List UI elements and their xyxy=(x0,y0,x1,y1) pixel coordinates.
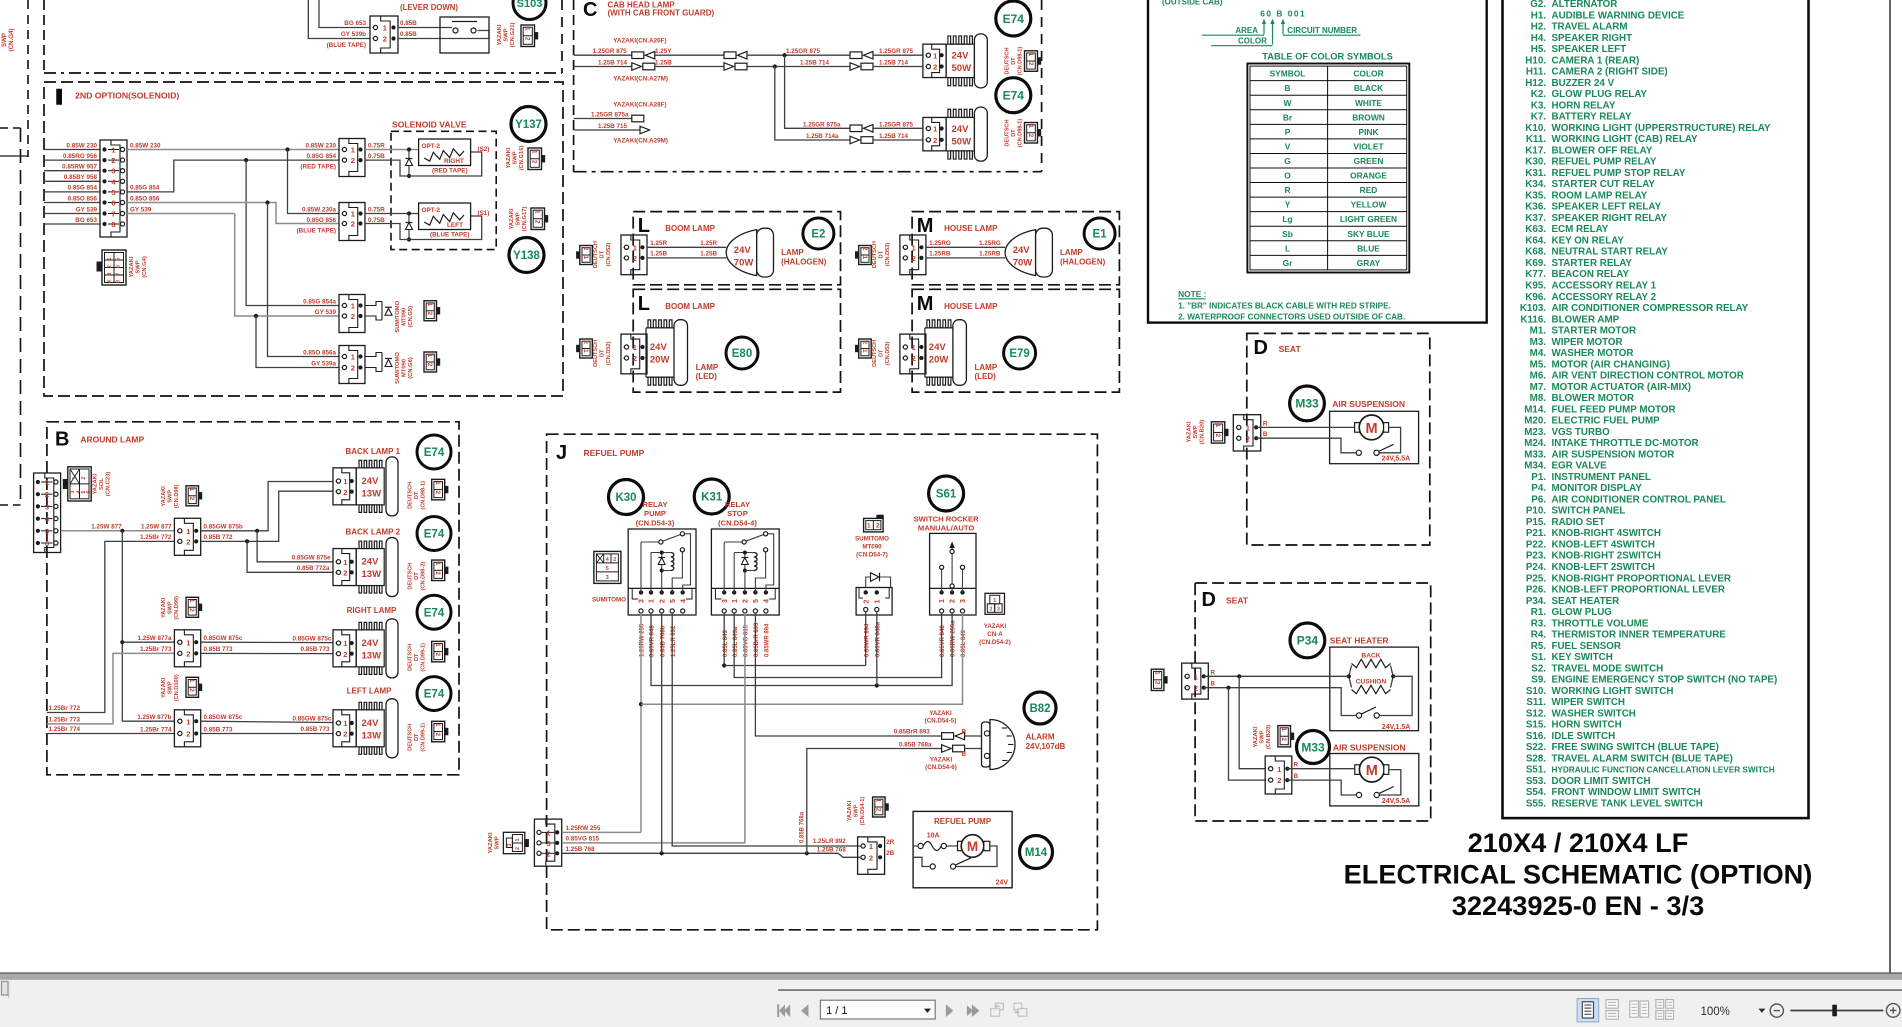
svg-text:1.25B: 1.25B xyxy=(650,251,667,258)
svg-text:BOOM LAMP: BOOM LAMP xyxy=(665,224,715,233)
svg-text:K30: K30 xyxy=(615,492,636,504)
svg-text:SWP: SWP xyxy=(516,212,522,225)
svg-text:2: 2 xyxy=(912,354,916,363)
svg-text:E74: E74 xyxy=(424,607,445,619)
svg-text:24V: 24V xyxy=(734,245,752,256)
svg-text:SWP: SWP xyxy=(495,836,501,849)
svg-text:K30.: K30. xyxy=(1525,157,1546,168)
svg-text:1: 1 xyxy=(861,256,868,260)
svg-text:S2.: S2. xyxy=(1531,663,1546,674)
svg-text:(CN.B20): (CN.B20) xyxy=(1266,725,1272,750)
svg-text:R3.: R3. xyxy=(1531,618,1547,629)
svg-text:P15.: P15. xyxy=(1526,517,1546,528)
svg-text:24V,5.5A: 24V,5.5A xyxy=(1382,456,1411,463)
svg-text:TRAVEL MODE SWITCH: TRAVEL MODE SWITCH xyxy=(1552,663,1664,674)
svg-text:2: 2 xyxy=(876,523,880,530)
svg-text:1.25B 714: 1.25B 714 xyxy=(879,133,909,140)
connector C3 YAZAKI SWP (CN.D100) xyxy=(174,710,200,747)
svg-text:1.25RG: 1.25RG xyxy=(979,240,1001,247)
connector icon DEUTSCH DT (CN.D53) xyxy=(859,246,872,265)
wire 0.85BrR 893 to alarm xyxy=(755,613,941,736)
connector X1 8-pin YAZAKI SWP (CN.G4) xyxy=(100,140,127,237)
svg-text:2: 2 xyxy=(343,730,347,739)
svg-text:LEFT: LEFT xyxy=(447,222,463,229)
wire bus 848 h3 xyxy=(651,613,952,686)
svg-text:B: B xyxy=(55,429,69,451)
lamp id E1 xyxy=(1084,218,1115,249)
svg-text:2: 2 xyxy=(186,538,190,547)
wire 0.85GW 875b C1 to back lamp1 xyxy=(201,482,333,531)
svg-text:DT: DT xyxy=(600,349,606,357)
svg-text:0.85B 773: 0.85B 773 xyxy=(301,646,331,653)
svg-text:13W: 13W xyxy=(362,730,382,741)
svg-text:Sb: Sb xyxy=(1282,229,1293,239)
connector icon YAZAKI SWP (CN.D100) xyxy=(186,677,199,697)
node area/color/circuit arrows xyxy=(1263,20,1265,35)
svg-text:2: 2 xyxy=(863,599,870,603)
svg-text:1: 1 xyxy=(1280,728,1287,732)
svg-text:1: 1 xyxy=(45,478,49,487)
svg-text:PUMP: PUMP xyxy=(644,509,666,518)
node toolbar background xyxy=(0,980,1902,1027)
lamp LED E80 xyxy=(646,327,674,329)
svg-text:0.85BrR 893: 0.85BrR 893 xyxy=(894,729,931,736)
svg-text:DT: DT xyxy=(878,250,884,258)
svg-text:DT: DT xyxy=(414,572,420,580)
svg-text:MOTOR ACTUATOR (AIR-MIX): MOTOR ACTUATOR (AIR-MIX) xyxy=(1552,382,1692,393)
svg-text:1.25RG: 1.25RG xyxy=(929,240,951,247)
svg-text:YAZAKI: YAZAKI xyxy=(506,147,512,168)
svg-text:CIRCUIT NUMBER: CIRCUIT NUMBER xyxy=(1287,26,1357,35)
svg-text:2: 2 xyxy=(351,364,355,373)
wire S1 pin2 loop xyxy=(365,216,482,240)
node section M box (E79) xyxy=(912,289,1119,392)
connector icon CN.G16 xyxy=(528,148,542,170)
wire stub pin5 0.85G 854 xyxy=(44,191,100,193)
lamp halogen E2 xyxy=(726,230,757,276)
wire branch G854a down to CN.G5 xyxy=(246,160,339,305)
svg-text:P24.: P24. xyxy=(1526,562,1546,573)
svg-text:(CN.G4): (CN.G4) xyxy=(8,28,15,51)
svg-text:2: 2 xyxy=(633,254,637,263)
node junction 877a xyxy=(120,640,124,644)
svg-text:SYMBOL: SYMBOL xyxy=(1270,69,1306,79)
svg-text:YAZAKI: YAZAKI xyxy=(161,597,167,618)
svg-text:BACK: BACK xyxy=(1361,652,1380,659)
svg-text:BOOM LAMP: BOOM LAMP xyxy=(665,302,715,311)
svg-text:THERMISTOR INNER TEMPERATURE: THERMISTOR INNER TEMPERATURE xyxy=(1552,630,1727,641)
switch id S61 xyxy=(929,476,964,511)
svg-text:MANUAL/AUTO: MANUAL/AUTO xyxy=(918,524,974,533)
svg-text:8: 8 xyxy=(111,220,115,229)
svg-text:J: J xyxy=(556,442,567,464)
svg-text:5: 5 xyxy=(606,566,609,572)
relay K31 xyxy=(711,529,779,615)
connector icon J-left xyxy=(503,832,524,853)
svg-text:32243925-0 EN - 3/3: 32243925-0 EN - 3/3 xyxy=(1452,890,1704,921)
motor box air suspension 1 xyxy=(1330,411,1419,463)
svg-text:2: 2 xyxy=(875,808,882,812)
svg-text:0.85G 854a: 0.85G 854a xyxy=(303,298,336,305)
svg-text:2: 2 xyxy=(343,488,347,497)
svg-text:2R: 2R xyxy=(886,839,895,846)
connector icon DEUTSCH DT (CN.D52) xyxy=(580,339,593,358)
connector icon YAZAKI SWP (CN.D99) xyxy=(186,597,199,617)
svg-text:2: 2 xyxy=(81,476,87,479)
svg-text:1: 1 xyxy=(111,146,115,155)
diode CN.G6 xyxy=(365,353,382,357)
svg-text:(CN.D54-4): (CN.D54-4) xyxy=(718,518,757,527)
svg-text:1: 1 xyxy=(1027,53,1034,57)
svg-text:M6.: M6. xyxy=(1530,371,1547,382)
svg-text:FUEL SENSOR: FUEL SENSOR xyxy=(1552,641,1622,652)
svg-text:SWITCH PANEL: SWITCH PANEL xyxy=(1552,506,1626,517)
svg-text:ELECTRICAL SCHEMATIC (OPTION): ELECTRICAL SCHEMATIC (OPTION) xyxy=(1344,859,1813,890)
svg-text:K64.: K64. xyxy=(1525,236,1546,247)
svg-text:3: 3 xyxy=(546,839,550,848)
svg-text:1: 1 xyxy=(1214,424,1221,428)
svg-text:P25.: P25. xyxy=(1526,573,1546,584)
wire S1 pin1 to OPT-2 LEFT xyxy=(365,213,419,215)
svg-text:LAMP: LAMP xyxy=(696,363,719,372)
svg-text:HYDRAULIC FUNCTION CANCELLATIO: HYDRAULIC FUNCTION CANCELLATION LEVER SW… xyxy=(1552,766,1775,775)
svg-text:0.85GW 875c: 0.85GW 875c xyxy=(293,635,332,642)
svg-text:YAZAKI: YAZAKI xyxy=(161,677,167,698)
solenoid OPT-2 LEFT (Y138 coil) xyxy=(419,203,471,230)
svg-text:B82: B82 xyxy=(1029,703,1050,715)
svg-text:M: M xyxy=(917,293,934,315)
svg-text:2: 2 xyxy=(426,363,433,367)
svg-text:S15.: S15. xyxy=(1526,720,1546,731)
node junction B714 xyxy=(773,64,777,68)
svg-text:(RED TAPE): (RED TAPE) xyxy=(300,164,336,171)
svg-text:RESERVE TANK LEVEL SWITCH: RESERVE TANK LEVEL SWITCH xyxy=(1552,799,1703,810)
svg-text:(HALOGEN): (HALOGEN) xyxy=(781,257,827,266)
svg-text:2: 2 xyxy=(434,653,441,657)
relay K30 xyxy=(628,529,696,615)
lamp id E74 xyxy=(417,517,451,551)
svg-text:24V: 24V xyxy=(929,342,947,353)
svg-text:YAZAKI: YAZAKI xyxy=(930,757,953,764)
svg-text:GY 539: GY 539 xyxy=(315,309,337,316)
wire S2 pin1 to OPT-2 RIGHT xyxy=(365,149,419,151)
wire 1.25GR 875 upper xyxy=(574,54,632,56)
svg-text:50W: 50W xyxy=(952,63,972,74)
wire 1.25Br 772 xyxy=(47,541,174,712)
svg-text:RED: RED xyxy=(1360,185,1378,195)
svg-text:BG 653: BG 653 xyxy=(75,217,97,224)
svg-text:24V: 24V xyxy=(650,342,668,353)
svg-text:WORKING LIGHT SWITCH: WORKING LIGHT SWITCH xyxy=(1552,686,1674,697)
svg-text:ROOM LAMP RELAY: ROOM LAMP RELAY xyxy=(1552,190,1648,201)
alarm id B82 xyxy=(1024,692,1056,724)
svg-text:HOUSE LAMP: HOUSE LAMP xyxy=(944,224,998,233)
svg-text:1: 1 xyxy=(649,599,656,603)
relay id K30 xyxy=(609,480,644,515)
svg-text:2: 2 xyxy=(1027,62,1034,66)
wire bus 849a h2 xyxy=(734,613,941,678)
resistor CUSHION xyxy=(1349,676,1352,687)
svg-text:2B: 2B xyxy=(886,850,895,857)
svg-text:(CN.B20): (CN.B20) xyxy=(1200,420,1206,445)
svg-text:2: 2 xyxy=(351,220,355,229)
svg-text:1: 1 xyxy=(434,481,441,485)
svg-text:3: 3 xyxy=(107,272,113,275)
svg-text:SOL: SOL xyxy=(99,478,105,490)
lamp E74 BACK LAMP 2 xyxy=(356,549,384,586)
connector icon DEUTSCH (CN.D99-1) xyxy=(432,641,445,662)
svg-text:DEUTSCH: DEUTSCH xyxy=(408,482,414,509)
svg-text:SWITCH ROCKER: SWITCH ROCKER xyxy=(914,515,979,524)
svg-text:3: 3 xyxy=(997,606,1000,612)
svg-text:YAZAKI(CN.A26F): YAZAKI(CN.A26F) xyxy=(613,38,666,45)
svg-text:M7.: M7. xyxy=(1530,382,1547,393)
svg-text:B: B xyxy=(1294,773,1299,780)
node section C dashed box xyxy=(573,0,575,172)
svg-text:P22.: P22. xyxy=(1526,540,1546,551)
svg-text:DEUTSCH: DEUTSCH xyxy=(408,644,414,671)
svg-text:24V: 24V xyxy=(362,718,380,729)
svg-text:2: 2 xyxy=(426,312,433,316)
svg-text:2: 2 xyxy=(613,557,616,563)
svg-text:BLOWER MOTOR: BLOWER MOTOR xyxy=(1552,393,1635,404)
svg-text:SUMITOMO: SUMITOMO xyxy=(855,536,889,543)
svg-text:SWP: SWP xyxy=(168,601,174,614)
svg-text:(CN.G6): (CN.G6) xyxy=(408,357,414,379)
svg-text:Y: Y xyxy=(1285,200,1291,210)
svg-text:YAZAKI: YAZAKI xyxy=(1253,726,1259,747)
node junction 877 xyxy=(120,529,124,533)
icon previous page xyxy=(801,1004,809,1017)
svg-text:Lg: Lg xyxy=(1282,214,1292,224)
wire switch left leg xyxy=(913,857,930,866)
wire 1.25LR 892 xyxy=(672,613,860,846)
svg-text:LAMP: LAMP xyxy=(975,363,998,372)
svg-text:S12.: S12. xyxy=(1526,708,1546,719)
svg-text:R5.: R5. xyxy=(1531,641,1547,652)
svg-text:ACCESSORY RELAY 1: ACCESSORY RELAY 1 xyxy=(1552,281,1657,292)
svg-text:K2.: K2. xyxy=(1531,89,1547,100)
svg-text:2: 2 xyxy=(1277,776,1281,785)
svg-text:(CN.D98-2): (CN.D98-2) xyxy=(421,562,427,591)
svg-text:YAZAKI: YAZAKI xyxy=(93,473,99,494)
diode D54-7 xyxy=(866,577,891,588)
wire stub pin4 0.85BY 958 xyxy=(44,180,100,182)
wire S2 pin2 loop xyxy=(365,152,482,176)
svg-text:YAZAKI: YAZAKI xyxy=(1187,421,1193,442)
svg-text:THROTTLE VOLUME: THROTTLE VOLUME xyxy=(1552,618,1649,629)
connector CN.D54-1 2-pin xyxy=(858,837,885,874)
svg-text:H4.: H4. xyxy=(1531,33,1547,44)
terminal pair lamp1 lower xyxy=(850,63,860,71)
svg-text:2: 2 xyxy=(1194,684,1198,693)
connector E80 2-pin xyxy=(621,334,647,374)
lamp E74 RIGHT LAMP xyxy=(356,630,384,667)
svg-text:1 / 1: 1 / 1 xyxy=(826,1005,847,1017)
node toolbar grip icon xyxy=(2,982,9,996)
svg-text:TRAVEL ALARM SWITCH (BLUE TAPE: TRAVEL ALARM SWITCH (BLUE TAPE) xyxy=(1552,753,1733,764)
svg-text:SPEAKER LEFT: SPEAKER LEFT xyxy=(1552,44,1627,55)
node junction 768b xyxy=(660,851,664,855)
wire 0.85VG 815 xyxy=(562,613,745,843)
wire branch O856a down to CN.G6 xyxy=(268,203,340,357)
svg-text:STOP: STOP xyxy=(727,509,748,518)
lamp id E74 xyxy=(417,677,451,711)
connector E1 2-pin xyxy=(900,235,926,275)
svg-text:M14.: M14. xyxy=(1524,404,1546,415)
node page frame right edge xyxy=(1889,0,1891,973)
svg-text:1.25W 877: 1.25W 877 xyxy=(141,524,172,531)
svg-text:1: 1 xyxy=(1027,124,1034,128)
svg-text:SPEAKER RIGHT: SPEAKER RIGHT xyxy=(1552,33,1633,44)
svg-text:AROUND LAMP: AROUND LAMP xyxy=(80,435,144,445)
svg-text:1: 1 xyxy=(861,349,868,353)
svg-text:TABLE OF COLOR SYMBOLS: TABLE OF COLOR SYMBOLS xyxy=(1262,52,1393,62)
svg-text:S103: S103 xyxy=(517,0,543,10)
svg-text:INSTRUMENT PANEL: INSTRUMENT PANEL xyxy=(1552,472,1651,483)
svg-text:PINK: PINK xyxy=(1358,127,1378,137)
svg-text:1.25Br 772: 1.25Br 772 xyxy=(49,705,81,712)
connector B 6-pin xyxy=(34,473,61,553)
svg-text:STARTER CUT RELAY: STARTER CUT RELAY xyxy=(1552,179,1656,190)
svg-text:2: 2 xyxy=(861,340,868,344)
svg-text:AIR CONDITIONER COMPRESSOR REL: AIR CONDITIONER COMPRESSOR RELAY xyxy=(1552,303,1749,314)
node heater left xyxy=(1347,674,1351,678)
wire 1.25Br 773 xyxy=(47,653,174,724)
svg-text:S9.: S9. xyxy=(1531,675,1546,686)
svg-text:1: 1 xyxy=(351,353,355,362)
svg-text:6: 6 xyxy=(86,490,92,493)
svg-text:1.25W 877a: 1.25W 877a xyxy=(138,635,172,642)
svg-text:K69.: K69. xyxy=(1525,258,1546,269)
svg-text:1: 1 xyxy=(434,723,441,727)
motor box air suspension 2 xyxy=(1330,754,1419,806)
wire 0.85GW 875c C2 to right lamp xyxy=(201,641,333,643)
svg-text:AIR VENT DIRECTION CONTROL MOT: AIR VENT DIRECTION CONTROL MOTOR xyxy=(1552,371,1744,382)
node junction diode2 bottom xyxy=(407,237,411,241)
wire 877 branch down xyxy=(121,531,123,721)
svg-text:2: 2 xyxy=(107,265,113,268)
wire to lever-down switch pin1 xyxy=(319,0,370,28)
svg-text:(RED TAPE): (RED TAPE) xyxy=(432,168,468,175)
lamp id E79 xyxy=(1004,337,1036,369)
switch S103 limit switch box xyxy=(440,17,489,53)
svg-text:M8.: M8. xyxy=(1530,393,1547,404)
svg-text:MOTOR (AIR CHANGING): MOTOR (AIR CHANGING) xyxy=(1552,359,1670,370)
svg-text:0.75B: 0.75B xyxy=(368,153,385,160)
node junction 768a xyxy=(805,851,809,855)
svg-text:24V,107dB: 24V,107dB xyxy=(1026,742,1066,751)
diode D-S2 xyxy=(408,150,410,177)
svg-text:H1.: H1. xyxy=(1531,10,1547,21)
lamp id E74 xyxy=(417,595,451,629)
svg-text:2: 2 xyxy=(111,156,115,165)
connector J-left 3-pin xyxy=(534,819,561,866)
connector icon YAZAKI SWP (CN.D54-1) xyxy=(873,797,886,817)
svg-text:SWP: SWP xyxy=(513,151,519,164)
node info box border xyxy=(1148,0,1487,323)
wire cont xyxy=(747,66,850,68)
svg-text:0.85O 856a: 0.85O 856a xyxy=(303,349,336,356)
svg-text:K10.: K10. xyxy=(1525,123,1546,134)
terminal pair mid lower xyxy=(724,63,734,71)
svg-text:2: 2 xyxy=(933,63,937,72)
svg-text:AIR SUSPENSION: AIR SUSPENSION xyxy=(1333,743,1406,753)
svg-text:AUDIBLE WARNING DEVICE: AUDIBLE WARNING DEVICE xyxy=(1552,10,1685,21)
svg-text:(CN.C23): (CN.C23) xyxy=(106,472,112,497)
svg-text:L: L xyxy=(1285,243,1290,253)
svg-text:ELECTRIC FUEL PUMP: ELECTRIC FUEL PUMP xyxy=(1552,416,1661,427)
connector icon CN.D98-1 b xyxy=(1025,123,1038,144)
svg-text:0.85G 854: 0.85G 854 xyxy=(130,185,160,192)
svg-text:1: 1 xyxy=(933,125,937,134)
svg-text:1.25RB: 1.25RB xyxy=(929,251,951,258)
wire stub pin6 0.85O 856 xyxy=(44,202,100,204)
svg-text:S10.: S10. xyxy=(1526,686,1546,697)
svg-text:LEFT LAMP: LEFT LAMP xyxy=(347,687,393,696)
wire 1.25Br 774 xyxy=(47,733,174,735)
svg-text:0.85WR 894: 0.85WR 894 xyxy=(765,623,771,657)
svg-text:2: 2 xyxy=(531,160,538,164)
svg-text:1: 1 xyxy=(939,599,946,603)
svg-text:S28.: S28. xyxy=(1526,753,1546,764)
svg-text:M: M xyxy=(1366,763,1378,779)
svg-text:R4.: R4. xyxy=(1531,630,1547,641)
svg-text:Y137: Y137 xyxy=(515,119,542,131)
svg-text:1: 1 xyxy=(343,719,347,728)
svg-text:BLOWER OFF RELAY: BLOWER OFF RELAY xyxy=(1552,145,1653,156)
svg-text:YAZAKI: YAZAKI xyxy=(129,256,135,277)
connector C2 YAZAKI SWP (CN.D99) xyxy=(174,630,200,667)
connector icon CN.B20 (lower) xyxy=(1278,726,1291,747)
resistor BACK xyxy=(1349,666,1352,677)
svg-text:WASHER MOTOR: WASHER MOTOR xyxy=(1552,348,1634,359)
svg-text:WHITE: WHITE xyxy=(1355,98,1382,108)
svg-text:E80: E80 xyxy=(732,348,752,360)
svg-text:0.85VG 815: 0.85VG 815 xyxy=(566,836,600,843)
svg-text:1.25GR 875a: 1.25GR 875a xyxy=(591,111,629,118)
svg-text:50W: 50W xyxy=(952,136,972,147)
svg-text:DEUTSCH: DEUTSCH xyxy=(408,724,414,751)
svg-text:2: 2 xyxy=(861,247,868,251)
node left margin dashed borders xyxy=(27,0,29,157)
svg-text:2: 2 xyxy=(351,156,355,165)
svg-text:YAZAKI(CN.A27M): YAZAKI(CN.A27M) xyxy=(613,75,668,82)
wire GY 539 pin7 to CN.G5 pin2 xyxy=(127,213,235,215)
svg-text:4: 4 xyxy=(764,599,771,603)
svg-text:5: 5 xyxy=(116,257,122,260)
svg-text:(CN.D54-1): (CN.D54-1) xyxy=(860,797,866,826)
wire R to motor2 xyxy=(1287,768,1355,770)
lamp E74 cab head lamp 1 xyxy=(946,44,974,77)
svg-text:H5.: H5. xyxy=(1531,44,1547,55)
table of color symbols xyxy=(1247,64,1409,273)
svg-text:1: 1 xyxy=(434,562,441,566)
svg-text:1: 1 xyxy=(524,27,531,31)
switch S61 box xyxy=(930,533,976,615)
svg-text:SEAT: SEAT xyxy=(1279,344,1302,354)
diode CN.G5 xyxy=(365,302,382,306)
connector icon YAZAKI CN-A (CN.D54-2) xyxy=(985,593,1005,614)
svg-text:KNOB-LEFT 2SWITCH: KNOB-LEFT 2SWITCH xyxy=(1552,562,1655,573)
svg-text:2: 2 xyxy=(186,730,190,739)
svg-text:GY 539a: GY 539a xyxy=(311,360,336,367)
svg-text:M34.: M34. xyxy=(1524,461,1546,472)
svg-text:1: 1 xyxy=(1277,765,1281,774)
svg-text:0.85GW 875b: 0.85GW 875b xyxy=(204,524,243,531)
svg-text:(HALOGEN): (HALOGEN) xyxy=(1060,257,1106,266)
node junction 848a xyxy=(875,683,879,687)
